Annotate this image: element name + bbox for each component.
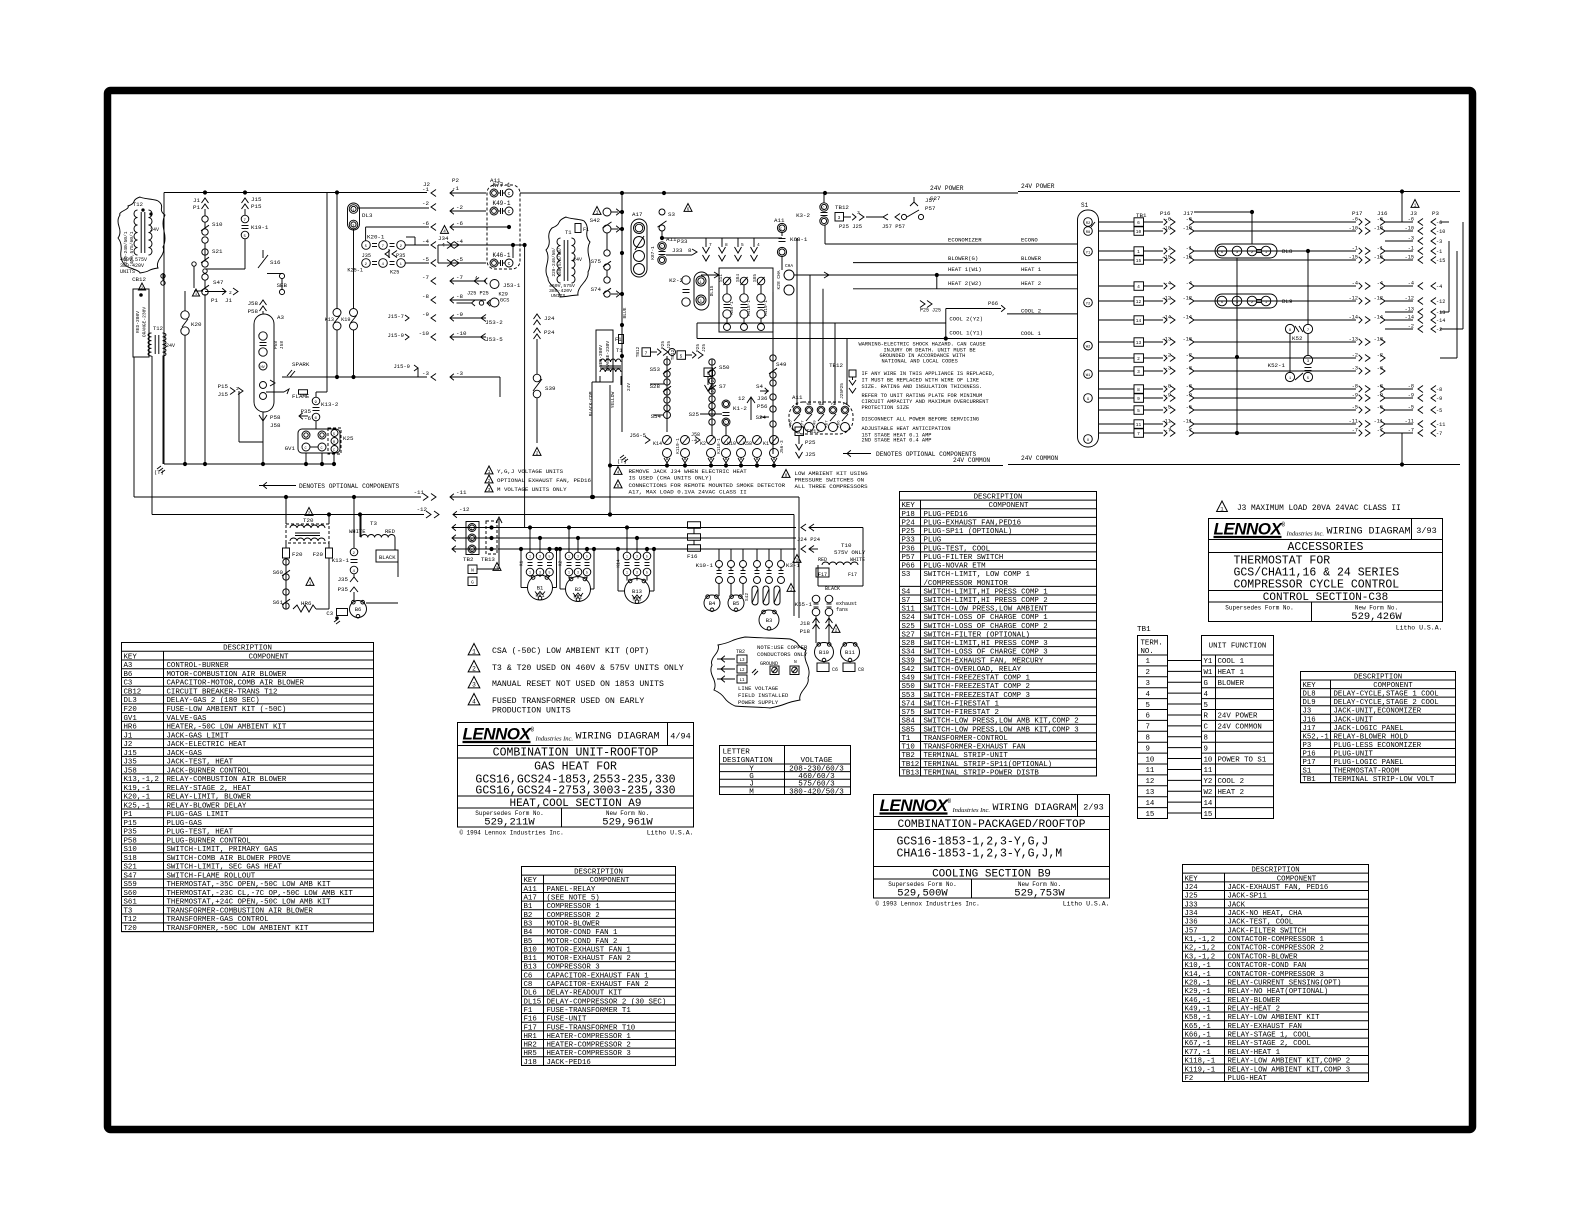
svg-text:UNIT FUNCTION: UNIT FUNCTION	[1209, 643, 1267, 651]
svg-text:HR2: HR2	[573, 595, 582, 601]
svg-text:RED-208V: RED-208V	[598, 345, 604, 367]
svg-text:-4: -4	[1165, 281, 1171, 287]
svg-text:4: 4	[472, 699, 476, 706]
svg-text:-12: -12	[1436, 299, 1445, 305]
svg-text:BLACK-COM: BLACK-COM	[588, 391, 594, 416]
svg-text:S84: S84	[736, 274, 741, 282]
svg-text:P58: P58	[248, 308, 259, 315]
svg-text:1: 1	[471, 528, 473, 532]
svg-text:-13: -13	[1436, 310, 1445, 316]
svg-text:LENNOX: LENNOX	[1214, 520, 1284, 539]
svg-text:3: 3	[472, 682, 476, 689]
svg-text:T10: T10	[841, 542, 852, 549]
svg-text:J53-5: J53-5	[485, 336, 503, 343]
svg-text:K2: K2	[700, 441, 706, 447]
svg-text:J58: J58	[279, 341, 285, 349]
svg-text:J24 P24: J24 P24	[797, 536, 821, 543]
svg-text:S61: S61	[273, 599, 284, 606]
svg-text:TB12: TB12	[835, 204, 849, 211]
svg-text:-6: -6	[422, 220, 429, 227]
svg-text:C3: C3	[326, 610, 333, 617]
svg-text:K118-1: K118-1	[747, 300, 752, 316]
svg-text:5: 5	[365, 245, 368, 249]
svg-text:3: 3	[857, 210, 860, 216]
svg-text:1: 1	[626, 555, 628, 559]
svg-text:K119-1: K119-1	[764, 300, 769, 316]
svg-text:COMPRESSOR CYCLE CONTROL: COMPRESSOR CYCLE CONTROL	[1234, 579, 1400, 592]
svg-text:4/94: 4/94	[670, 732, 690, 742]
svg-text:ADJUSTABLE HEAT ANTICIPATION: ADJUSTABLE HEAT ANTICIPATION	[862, 426, 951, 432]
svg-text:IT MUST BE REPLACED WITH WIRE: IT MUST BE REPLACED WITH WIRE OF LIKE	[862, 378, 980, 384]
svg-text:TB13: TB13	[481, 556, 495, 563]
svg-text:5: 5	[333, 433, 335, 437]
svg-text:-11: -11	[1436, 422, 1445, 428]
svg-text:5: 5	[586, 555, 588, 559]
svg-text:380-420/50/3: 380-420/50/3	[789, 788, 844, 796]
svg-text:24V: 24V	[573, 257, 582, 263]
svg-text:-8: -8	[1165, 384, 1171, 390]
svg-text:K10: K10	[727, 441, 736, 447]
svg-text:HR5: HR5	[632, 597, 641, 603]
svg-text:COOL 1: COOL 1	[1021, 330, 1042, 337]
svg-text:Industries Inc.: Industries Inc.	[535, 736, 574, 743]
svg-text:3: 3	[577, 571, 579, 575]
svg-text:14: 14	[1146, 800, 1155, 808]
svg-text:-10: -10	[419, 330, 430, 337]
svg-text:-2: -2	[422, 200, 429, 207]
svg-text:W2: W2	[1204, 789, 1213, 797]
svg-text:460,575/60/: 460,575/60/	[558, 247, 563, 276]
svg-text:J1: J1	[225, 297, 232, 304]
svg-text:T3 & T20 USED ON 460V & 575V U: T3 & T20 USED ON 460V & 575V UNITS ONLY	[492, 664, 684, 673]
svg-text:5: 5	[549, 571, 551, 575]
svg-text:POWER SUPPLY: POWER SUPPLY	[738, 699, 779, 706]
svg-text:N: N	[794, 659, 797, 665]
svg-text:-9: -9	[1436, 396, 1442, 402]
svg-text:B4: B4	[709, 600, 716, 607]
svg-text:Y2: Y2	[1086, 302, 1091, 306]
svg-text:J58: J58	[270, 422, 281, 429]
svg-text:C8: C8	[858, 667, 864, 673]
svg-text:L3: L3	[739, 659, 745, 663]
svg-text:K49: K49	[814, 420, 818, 428]
svg-text:P35: P35	[396, 253, 405, 259]
svg-text:-3: -3	[456, 370, 463, 377]
svg-text:CHA16-1853-1,2,3-Y,G,J,M: CHA16-1853-1,2,3-Y,G,J,M	[897, 848, 1063, 861]
svg-text:5: 5	[1204, 702, 1208, 710]
svg-text:P35: P35	[338, 586, 349, 593]
svg-text:S3: S3	[668, 211, 675, 218]
svg-text:J58: J58	[248, 300, 259, 307]
svg-text:24V: 24V	[627, 383, 632, 391]
svg-text:Y2: Y2	[831, 403, 836, 407]
svg-text:-10: -10	[1436, 229, 1445, 235]
svg-text:J53-1: J53-1	[503, 282, 521, 289]
svg-text:HEAT 2: HEAT 2	[1021, 280, 1041, 287]
svg-text:-9: -9	[456, 311, 463, 318]
svg-text:F1: F1	[583, 227, 589, 233]
svg-text:K13-1: K13-1	[332, 557, 350, 564]
svg-text:-6: -6	[456, 220, 463, 227]
svg-text:529,426W: 529,426W	[1351, 611, 1402, 623]
svg-text:W2: W2	[819, 403, 824, 407]
svg-text:Y,G,J VOLTAGE UNITS: Y,G,J VOLTAGE UNITS	[497, 468, 564, 475]
svg-text:K20: K20	[191, 321, 202, 328]
svg-text:7: 7	[1137, 431, 1140, 437]
svg-text:4: 4	[1137, 284, 1140, 290]
svg-text:J33: J33	[672, 247, 683, 254]
svg-text:W2: W2	[1086, 346, 1091, 350]
svg-text:1993 Lennox Industries Inc.: 1993 Lennox Industries Inc.	[883, 901, 980, 908]
svg-text:N: N	[471, 568, 474, 574]
svg-text:S7: S7	[719, 383, 726, 390]
svg-text:TB12: TB12	[671, 349, 676, 360]
svg-text:J57 P57: J57 P57	[882, 223, 905, 230]
svg-text:J53-2: J53-2	[485, 319, 503, 326]
svg-text:15: 15	[1204, 811, 1213, 819]
svg-text:P18: P18	[800, 628, 811, 635]
svg-text:-2: -2	[456, 204, 463, 211]
svg-text:K3-2: K3-2	[796, 212, 810, 219]
svg-text:P33: P33	[677, 238, 688, 245]
svg-text:K77-1: K77-1	[492, 182, 510, 189]
svg-text:CSA (-50C) LOW AMBIENT KIT (OP: CSA (-50C) LOW AMBIENT KIT (OPT)	[492, 646, 649, 656]
svg-text:S74: S74	[591, 286, 602, 293]
svg-text:HR6: HR6	[301, 600, 312, 607]
svg-text:-6: -6	[1436, 220, 1442, 226]
svg-text:S25: S25	[689, 411, 700, 418]
svg-text:C: C	[305, 447, 307, 451]
svg-text:11: 11	[1204, 767, 1213, 775]
svg-text:K20-1: K20-1	[367, 234, 385, 241]
svg-text:TERM.: TERM.	[1141, 640, 1163, 648]
svg-text:P25: P25	[661, 341, 666, 349]
svg-text:C: C	[508, 209, 511, 215]
svg-text:Y1: Y1	[1204, 658, 1213, 666]
svg-text:5: 5	[617, 484, 620, 489]
svg-text:7: 7	[709, 242, 712, 248]
svg-text:COOL 1(Y1): COOL 1(Y1)	[949, 329, 983, 336]
svg-text:13: 13	[1136, 340, 1142, 346]
svg-text:2: 2	[1137, 356, 1140, 362]
svg-text:FUSED TRANSFORMER USED ON EARL: FUSED TRANSFORMER USED ON EARLY	[492, 697, 644, 706]
svg-text:RED: RED	[385, 528, 396, 535]
svg-text:S39: S39	[545, 385, 556, 392]
svg-text:M VOLTAGE UNITS ONLY: M VOLTAGE UNITS ONLY	[497, 486, 567, 493]
svg-text:T20: T20	[303, 517, 314, 524]
svg-text:1: 1	[195, 293, 198, 297]
svg-text:12: 12	[738, 395, 745, 402]
svg-text:T12: T12	[153, 325, 163, 332]
svg-text:B13: B13	[632, 588, 642, 595]
svg-text:LINE VOLTAGE: LINE VOLTAGE	[738, 685, 779, 692]
svg-text:-14: -14	[1436, 318, 1445, 324]
svg-text:MANUAL RESET NOT USED ON 1853: MANUAL RESET NOT USED ON 1853 UNITS	[492, 680, 664, 689]
svg-text:2: 2	[229, 290, 232, 296]
svg-text:S21: S21	[212, 248, 223, 255]
svg-text:A11: A11	[666, 236, 677, 243]
svg-text:1: 1	[568, 555, 570, 559]
svg-text:G: G	[471, 580, 474, 586]
svg-text:8: 8	[785, 473, 788, 478]
svg-text:15: 15	[1146, 811, 1155, 819]
svg-text:©: ©	[876, 901, 880, 908]
svg-text:IF ANY WIRE IN THIS APPLIANCE: IF ANY WIRE IN THIS APPLIANCE IS REPLACE…	[862, 371, 996, 377]
svg-text:SEB: SEB	[277, 282, 288, 289]
svg-text:Supersedes Form No.: Supersedes Form No.	[1225, 605, 1293, 612]
svg-text:DISCONNECT ALL POWER BEFORE SE: DISCONNECT ALL POWER BEFORE SERVICING	[862, 416, 980, 422]
svg-text:PROTECTION SIZE: PROTECTION SIZE	[862, 405, 910, 411]
svg-text:2: 2	[472, 666, 476, 673]
svg-text:F20: F20	[292, 551, 303, 558]
svg-text:K25: K25	[343, 435, 354, 442]
svg-text:-4: -4	[1436, 284, 1442, 290]
svg-text:-1: -1	[1165, 246, 1171, 252]
svg-text:5: 5	[586, 571, 588, 575]
svg-text:1: 1	[529, 571, 531, 575]
svg-text:K19: K19	[341, 317, 350, 323]
svg-text:575V ONLY: 575V ONLY	[834, 549, 866, 556]
svg-text:B1: B1	[537, 585, 544, 592]
svg-text:W1: W1	[1204, 669, 1213, 677]
svg-text:-9: -9	[1352, 393, 1358, 399]
svg-text:J1: J1	[193, 197, 200, 204]
svg-text:9: 9	[1146, 745, 1150, 753]
svg-text:5: 5	[549, 555, 551, 559]
svg-text:-1: -1	[1352, 246, 1358, 252]
svg-text:11: 11	[1146, 767, 1155, 775]
svg-text:-8: -8	[1436, 387, 1442, 393]
svg-text:GAS HEAT FOR: GAS HEAT FOR	[534, 761, 617, 774]
svg-text:T12: T12	[133, 201, 143, 208]
svg-text:9: 9	[1137, 396, 1140, 402]
svg-text:C: C	[508, 191, 511, 197]
svg-text:4: 4	[382, 263, 385, 267]
svg-text:P57: P57	[925, 205, 936, 212]
svg-text:P58: P58	[273, 341, 279, 349]
svg-text:P1: P1	[193, 204, 200, 211]
svg-text:S24: S24	[756, 414, 767, 421]
svg-text:©: ©	[460, 830, 464, 837]
svg-text:14: 14	[1136, 318, 1142, 324]
svg-text:P24: P24	[544, 329, 555, 336]
svg-text:P25: P25	[805, 439, 816, 446]
svg-text:SPARK: SPARK	[292, 361, 310, 368]
svg-text:LETTER: LETTER	[723, 749, 751, 757]
svg-text:J15: J15	[218, 391, 229, 398]
svg-text:24V COMMON: 24V COMMON	[1021, 455, 1058, 462]
svg-text:1: 1	[529, 555, 531, 559]
svg-text:1: 1	[488, 470, 491, 475]
svg-text:10: 10	[1146, 756, 1155, 764]
svg-text:P56: P56	[757, 403, 768, 410]
svg-text:1: 1	[400, 263, 403, 267]
svg-text:®: ®	[1282, 522, 1286, 529]
svg-text:DL9: DL9	[1282, 298, 1293, 305]
svg-text:-12: -12	[417, 506, 428, 513]
svg-text:S75: S75	[591, 258, 602, 265]
svg-text:-14: -14	[1349, 315, 1358, 321]
svg-text:NOTE:USE COPPER: NOTE:USE COPPER	[757, 644, 808, 651]
svg-text:S60: S60	[273, 569, 284, 576]
svg-text:10: 10	[1204, 756, 1213, 764]
svg-text:8: 8	[688, 247, 692, 254]
svg-text:-3: -3	[1352, 366, 1358, 372]
svg-text:3: 3	[636, 571, 638, 575]
svg-text:24V COMMON: 24V COMMON	[953, 457, 990, 464]
svg-text:-5: -5	[1352, 405, 1358, 411]
svg-text:P25 J25: P25 J25	[920, 308, 941, 314]
svg-text:ORANGE-230V: ORANGE-230V	[142, 307, 148, 338]
svg-text:C6: C6	[832, 667, 838, 673]
svg-text:S42: S42	[744, 593, 750, 601]
svg-text:1: 1	[790, 587, 793, 592]
svg-text:P58: P58	[270, 414, 281, 421]
svg-text:3: 3	[636, 555, 638, 559]
svg-text:®: ®	[948, 798, 952, 805]
svg-text:COOL 2: COOL 2	[1218, 778, 1245, 786]
svg-text:C: C	[661, 246, 663, 250]
svg-text:2: 2	[488, 479, 491, 484]
svg-text:K58-1: K58-1	[730, 301, 735, 315]
svg-text:2: 2	[400, 245, 403, 249]
svg-text:7: 7	[1146, 724, 1150, 732]
svg-text:12: 12	[1136, 299, 1142, 305]
svg-text:J25P25: J25P25	[840, 383, 845, 399]
svg-text:3: 3	[577, 555, 579, 559]
svg-text:S54: S54	[651, 413, 662, 420]
svg-text:1: 1	[309, 581, 312, 586]
svg-text:6: 6	[1137, 220, 1140, 226]
svg-text:K2-2: K2-2	[669, 277, 683, 284]
svg-text:6: 6	[707, 371, 710, 377]
svg-text:S3: S3	[902, 571, 911, 579]
svg-text:FIELD INSTALLED: FIELD INSTALLED	[738, 692, 789, 699]
svg-text:J35: J35	[338, 576, 349, 583]
svg-text:24V: 24V	[166, 343, 175, 349]
svg-text:-5: -5	[422, 256, 429, 263]
svg-text:5: 5	[741, 242, 744, 248]
svg-text:C: C	[780, 228, 782, 232]
svg-text:14: 14	[1204, 800, 1213, 808]
svg-text:K52: K52	[1292, 335, 1303, 342]
svg-text:4: 4	[1146, 691, 1151, 699]
svg-text:C: C	[321, 447, 323, 451]
svg-text:K14: K14	[616, 559, 622, 567]
svg-text:-4: -4	[1352, 281, 1358, 287]
svg-text:2: 2	[1146, 669, 1150, 677]
svg-text:Y2: Y2	[1204, 778, 1213, 786]
svg-text:2ND STAGE HEAT 0.4 AMP: 2ND STAGE HEAT 0.4 AMP	[862, 438, 932, 444]
svg-text:-3: -3	[422, 370, 429, 377]
svg-text:2: 2	[796, 558, 799, 563]
svg-text:DL3: DL3	[362, 212, 373, 219]
svg-text:24V: 24V	[150, 227, 159, 233]
svg-text:A3: A3	[277, 314, 284, 321]
svg-text:-5: -5	[1436, 408, 1442, 414]
svg-text:-3: -3	[1165, 366, 1171, 372]
svg-text:1: 1	[1220, 505, 1224, 512]
svg-text:5: 5	[646, 571, 648, 575]
svg-text:J56-3: J56-3	[780, 440, 785, 454]
svg-text:TB2: TB2	[736, 649, 745, 655]
svg-text:J3 MAXIMUM LOAD 20VA 24VAC CLA: J3 MAXIMUM LOAD 20VA 24VAC CLASS II	[1237, 505, 1401, 513]
svg-text:8: 8	[1289, 329, 1292, 333]
svg-text:8: 8	[1137, 387, 1140, 393]
svg-text:C: C	[508, 261, 511, 267]
svg-text:K66: K66	[838, 420, 842, 428]
svg-text:HEAT 1: HEAT 1	[1218, 669, 1245, 677]
svg-text:529,211W: 529,211W	[484, 817, 535, 829]
svg-text:F17: F17	[848, 572, 857, 578]
svg-text:Litho U.S.A.: Litho U.S.A.	[1396, 625, 1443, 632]
svg-text:SIZE. RATING AND INSULATION TH: SIZE. RATING AND INSULATION THICKNESS.	[862, 384, 983, 390]
svg-text:3: 3	[700, 300, 702, 304]
svg-text:K1: K1	[763, 441, 769, 447]
svg-text:-15: -15	[1349, 255, 1358, 261]
svg-text:5: 5	[1307, 377, 1310, 381]
svg-text:-7: -7	[1165, 428, 1171, 434]
svg-text:TB1: TB1	[1137, 626, 1151, 634]
svg-text:529,753W: 529,753W	[1014, 888, 1065, 900]
svg-text:K25: K25	[390, 270, 399, 276]
svg-text:BLOWER: BLOWER	[1021, 255, 1042, 262]
svg-text:4: 4	[617, 470, 620, 475]
svg-text:4: 4	[757, 242, 760, 248]
svg-text:J18: J18	[800, 620, 811, 627]
svg-text:A17: A17	[632, 211, 643, 218]
svg-text:L1: L1	[739, 679, 745, 683]
svg-text:3: 3	[1137, 369, 1140, 375]
svg-text:J15-7: J15-7	[387, 313, 404, 320]
svg-text:IS USED (CHA UNITS ONLY): IS USED (CHA UNITS ONLY)	[629, 475, 713, 482]
svg-text:-5: -5	[456, 256, 463, 263]
svg-text:K77: K77	[802, 420, 806, 428]
svg-text:RED-208V: RED-208V	[135, 311, 141, 333]
svg-text:YELLOW: YELLOW	[610, 391, 616, 408]
svg-text:B3: B3	[766, 617, 773, 624]
svg-text:-6: -6	[1352, 217, 1358, 223]
svg-text:GCS: GCS	[500, 298, 509, 304]
svg-text:GV1: GV1	[285, 445, 296, 452]
svg-text:3: 3	[539, 571, 541, 575]
svg-text:1: 1	[596, 210, 599, 215]
svg-text:S4: S4	[756, 383, 763, 390]
svg-text:C: C	[725, 422, 727, 426]
svg-text:S50: S50	[719, 364, 730, 371]
svg-text:2: 2	[365, 263, 368, 267]
svg-text:®: ®	[531, 727, 535, 734]
svg-text:3: 3	[539, 555, 541, 559]
svg-text:WIRING DIAGRAM: WIRING DIAGRAM	[1327, 527, 1411, 538]
svg-text:1: 1	[352, 209, 354, 213]
svg-text:PRODUCTION UNITS: PRODUCTION UNITS	[492, 707, 571, 716]
svg-text:J36: J36	[757, 395, 768, 402]
svg-text:10: 10	[1136, 229, 1142, 235]
svg-text:15: 15	[1136, 258, 1142, 264]
svg-text:WHITE: WHITE	[349, 528, 366, 535]
svg-text:TB12: TB12	[829, 362, 843, 369]
svg-text:R8: R8	[1086, 231, 1091, 235]
svg-text:-11: -11	[414, 489, 425, 496]
svg-text:P66: P66	[988, 300, 998, 307]
svg-text:12: 12	[1146, 778, 1155, 786]
svg-text:-11: -11	[456, 489, 467, 496]
svg-text:CHA: CHA	[785, 263, 793, 269]
svg-text:1: 1	[472, 649, 476, 656]
svg-text:S49: S49	[776, 361, 787, 368]
svg-text:24V POWER: 24V POWER	[1218, 713, 1258, 721]
